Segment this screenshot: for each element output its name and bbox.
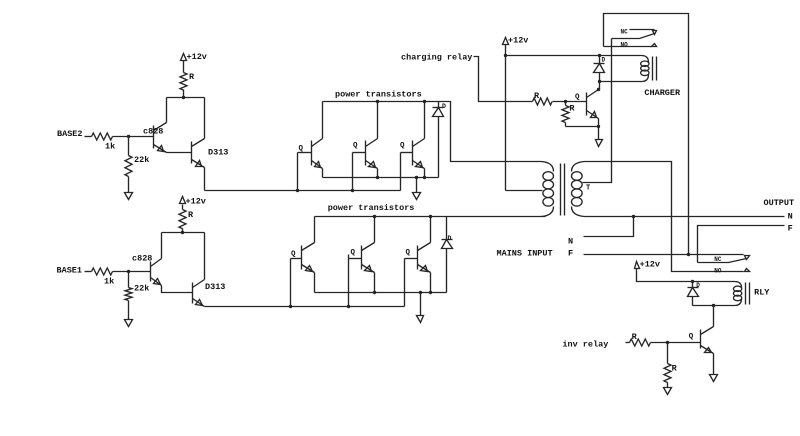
relay K1 coil (charger): [506, 56, 650, 82]
wire Q10 base drop: [404, 259, 406, 307]
wire K1 NO loop to mains F: [604, 14, 689, 255]
resistor R6 (collector supply): [179, 205, 186, 233]
junction Q9 emitter / bottom bus: [373, 291, 376, 294]
junction base bus / Q9 base: [347, 305, 350, 308]
label T (transformer): [586, 185, 590, 193]
wire charging relay lead-in: [474, 57, 533, 102]
power +12v (centre): [503, 36, 529, 46]
junction R8 / emitter line: [597, 125, 600, 128]
wire Q1 emitter to Q2 base: [167, 152, 192, 154]
wire Q3 collector up: [322, 102, 324, 139]
node F (mains): [568, 249, 573, 259]
label c828 (Q1): [143, 127, 163, 137]
wire lower emitter bus: [315, 292, 447, 294]
resistor R2 22k: [125, 156, 132, 177]
transistor Q5 (power): [413, 139, 425, 169]
transistor Q11 (charger driver): [587, 90, 599, 119]
svg-text:+12v: +12v: [187, 52, 207, 62]
svg-text:charging relay: charging relay: [401, 53, 472, 63]
label R (R10): [672, 364, 678, 374]
wire Q8 base stub: [291, 258, 302, 260]
wire upper bus to transformer primary top: [439, 102, 542, 162]
svg-text:Q: Q: [400, 142, 405, 150]
label c828 (Q6): [132, 254, 152, 264]
junction rail/R6: [181, 231, 184, 234]
label power transistors (upper): [335, 90, 422, 100]
svg-text:F: F: [788, 223, 793, 233]
relay K1 core: [653, 57, 657, 81]
label R (R6): [188, 210, 194, 220]
wire R5 top lead: [128, 272, 130, 288]
svg-text:1k: 1k: [104, 277, 114, 287]
junction D3 top / coil top: [598, 54, 601, 57]
wire Q9 base stub: [349, 258, 362, 260]
wire Q4 base stub: [353, 152, 366, 154]
node F (output): [788, 223, 793, 233]
node inv relay (label): [562, 340, 608, 350]
wire Q9 base drop: [348, 255, 350, 307]
label R (R7): [534, 91, 540, 101]
transistor Q4 (power): [366, 139, 378, 169]
svg-text:F: F: [568, 249, 573, 259]
svg-text:CHARGER: CHARGER: [644, 88, 681, 98]
svg-text:D: D: [602, 57, 606, 64]
svg-text:1k: 1k: [105, 142, 115, 152]
svg-text:Q: Q: [353, 142, 358, 150]
wire Q11 emitter to ground: [598, 119, 600, 140]
transformer T secondary winding: [572, 162, 585, 217]
junction Q10 emitter / bottom bus: [429, 291, 432, 294]
svg-text:R: R: [672, 364, 678, 374]
label Q (Q9): [351, 249, 356, 257]
junction Q9 collector / top bus: [373, 215, 376, 218]
wire Q6 collector to rail: [161, 233, 163, 259]
wire Q12 emitter to ground: [713, 354, 715, 375]
junction Q11 collector / diode leg: [597, 88, 600, 91]
wire Q5 base stub: [401, 152, 413, 154]
wire Q4 base drop: [352, 153, 354, 191]
junction Q12 base / R10: [666, 341, 669, 344]
wire K1 NO contact: [604, 46, 652, 48]
junction mains N / secondary bottom: [632, 215, 635, 218]
label MAINS INPUT: [497, 249, 553, 259]
label 1k (R1 value): [105, 142, 115, 152]
label NC (K1 contact): [621, 29, 629, 36]
node BASE2: [57, 129, 83, 139]
power +12v (upper channel): [181, 52, 207, 62]
wire lower +12v rail: [162, 232, 205, 234]
junction Q5 collector / top bus: [423, 100, 426, 103]
svg-text:NO: NO: [714, 267, 722, 274]
svg-text:NC: NC: [621, 29, 629, 36]
junction Q10 collector / top bus: [429, 215, 432, 218]
svg-text:22k: 22k: [134, 284, 149, 294]
transistor Q2 D313: [192, 139, 205, 168]
wire K1 NC contact: [630, 29, 655, 31]
resistor R5 22k: [125, 288, 132, 301]
transistor Q8 (power): [302, 243, 315, 273]
wire Q7 collector to rail: [204, 233, 206, 280]
svg-text:Q: Q: [406, 249, 411, 257]
diode D1 (upper snubber): [433, 102, 444, 178]
wire Q10 base stub: [405, 258, 418, 260]
svg-text:power transistors: power transistors: [328, 203, 415, 213]
resistor R1 1k: [92, 133, 113, 140]
contact marker (K2 NC side): [745, 256, 750, 260]
junction D3 bottom / coil bottom: [598, 80, 601, 83]
junction emitter bus / ground stub: [415, 176, 418, 179]
ground (upper block): [413, 193, 421, 200]
label NO (K1 contact): [621, 41, 629, 48]
svg-text:Q: Q: [351, 249, 356, 257]
wire R1 to Q1 base: [113, 136, 154, 138]
junction base bus / Q4 base: [351, 189, 354, 192]
relay K2 coil (RLY): [693, 282, 742, 306]
wire Q5 collector up: [424, 102, 426, 139]
label Q (Q12): [689, 333, 694, 341]
svg-text:D313: D313: [208, 148, 228, 158]
svg-text:BASE1: BASE1: [57, 266, 83, 276]
wire ground stub (upper block): [416, 178, 418, 193]
ground (lower block): [417, 316, 424, 323]
label OUTPUT: [764, 198, 795, 208]
wire primary centre tap: [506, 190, 543, 192]
wire output F: [698, 226, 785, 263]
svg-text:Q: Q: [689, 333, 694, 341]
power +12v (lower channel): [180, 197, 206, 207]
diode D2 (lower snubber): [442, 217, 453, 293]
transformer T core: [561, 164, 565, 216]
wire upper base bus: [205, 190, 401, 192]
wire Q1 collector to +12v rail: [166, 98, 168, 123]
wire Q6 emitter to Q7 base: [162, 286, 193, 293]
svg-text:Q: Q: [575, 94, 580, 102]
label R (R3): [189, 72, 195, 82]
resistor R8 (base pulldown): [562, 102, 569, 127]
wire R2 top lead: [128, 137, 130, 156]
svg-text:D: D: [442, 103, 446, 110]
wire Q8 base drop: [290, 259, 292, 307]
label power transistors (lower): [328, 203, 415, 213]
junction emitter bus / ground stub (lower): [419, 291, 422, 294]
wire Q3 base drop: [297, 153, 299, 191]
label CHARGER (K1): [644, 88, 681, 98]
label RLY (K2): [754, 288, 770, 298]
wire mains F to K2 NC: [584, 254, 744, 256]
wire R8 to emitter line: [566, 126, 599, 128]
svg-text:+12v: +12v: [508, 36, 528, 46]
wire Q8 emitter down: [314, 273, 316, 293]
resistor R10 (base pulldown): [664, 343, 671, 388]
ground (Q12 emitter): [710, 375, 718, 382]
contact marker (K1 NO side): [652, 44, 657, 47]
wire +12v down to centre tap: [505, 45, 507, 191]
ground (below R2): [125, 193, 133, 200]
junction R1/R2/Q1-base: [127, 135, 130, 138]
junction +12v / charger coil feed: [504, 54, 507, 57]
ground (below R10): [664, 388, 672, 395]
label Q (Q11): [575, 94, 580, 102]
wire ground stub (lower block): [420, 293, 422, 316]
junction Q5 emitter / bottom bus: [423, 176, 426, 179]
label Q (Q5): [400, 142, 405, 150]
wire R9 to Q12 base: [651, 342, 701, 344]
svg-text:power transistors: power transistors: [335, 90, 422, 100]
wire Q10 collector up: [430, 217, 432, 243]
transistor Q10 (power): [418, 243, 431, 273]
wire Q12 collector up: [713, 306, 715, 327]
label R (R9): [632, 332, 638, 342]
label Q (Q8): [291, 251, 296, 259]
diode D3 (charger coil flyback): [594, 56, 605, 90]
node N (output): [788, 212, 793, 222]
wire Q5 base drop: [400, 153, 402, 191]
label Q (Q4): [353, 142, 358, 150]
junction Q4 emitter / bottom bus: [376, 176, 379, 179]
wire lower bus to transformer primary bottom: [447, 216, 546, 218]
label 22k (R5 value): [134, 284, 149, 294]
label Q (Q10): [406, 249, 411, 257]
wire Q8 collector up: [314, 217, 316, 243]
wire upper +12v rail: [167, 97, 205, 99]
label D313 (Q7): [205, 282, 225, 292]
svg-text:RLY: RLY: [754, 288, 770, 298]
wire Q3 emitter down: [322, 169, 324, 178]
svg-text:D313: D313: [205, 282, 225, 292]
svg-text:D: D: [696, 282, 700, 289]
contact marker pole (K1 NC side): [653, 31, 657, 35]
label 22k (R2 value): [134, 155, 149, 165]
wire R7 to Q11 base: [553, 101, 587, 103]
wire upper emitter bus: [323, 177, 439, 179]
svg-text:N: N: [788, 212, 793, 222]
wire +12v to K2 coil: [637, 269, 693, 282]
wire BASE1 stub: [85, 271, 92, 273]
wire Q2 collector to +12v rail: [204, 98, 206, 139]
svg-text:MAINS INPUT: MAINS INPUT: [497, 249, 553, 259]
svg-text:c828: c828: [132, 254, 152, 264]
label Q (Q3): [299, 145, 304, 153]
svg-text:+12v: +12v: [640, 260, 660, 270]
wire Q9 emitter down: [374, 273, 376, 293]
wire Q3 base stub: [298, 152, 312, 154]
svg-text:R: R: [534, 91, 540, 101]
svg-text:inv relay: inv relay: [562, 340, 608, 350]
label D (D3): [602, 57, 606, 64]
wire BASE2 stub: [85, 136, 92, 138]
svg-text:OUTPUT: OUTPUT: [764, 198, 795, 208]
transistor Q12 (inverter relay driver): [701, 327, 714, 354]
junction R4/R5/Q6-base: [127, 270, 130, 273]
transistor Q3 (power): [312, 139, 323, 169]
wire R5 to ground: [128, 301, 130, 320]
node BASE1: [57, 266, 83, 276]
svg-text:+12v: +12v: [186, 197, 206, 207]
svg-text:NO: NO: [621, 41, 629, 48]
svg-text:Q: Q: [291, 251, 296, 259]
power +12v (inverter relay): [635, 260, 661, 270]
junction Q11 base / R8: [564, 100, 567, 103]
svg-text:T: T: [586, 185, 590, 193]
wire lower collector bus: [315, 216, 447, 218]
wire mains N: [584, 217, 634, 237]
relay K2 core: [746, 283, 750, 305]
junction base bus / Q3 base: [296, 189, 299, 192]
transistor Q6 c828: [151, 259, 162, 286]
label NO (K2 contact): [714, 267, 722, 274]
resistor R7 (base series): [533, 98, 553, 105]
ground (below R5): [125, 320, 133, 327]
wire Q4 collector up: [377, 102, 379, 139]
wire secondary tap riser: [583, 39, 612, 183]
resistor R3 (collector supply): [180, 61, 187, 98]
wire Q2 emitter down: [204, 168, 206, 191]
wire Q5 emitter down: [424, 169, 426, 178]
junction base bus / Q8 base: [289, 305, 292, 308]
wire K1 common arm: [612, 34, 655, 39]
junction coil bottom / Q12 collector: [712, 304, 715, 307]
svg-text:R: R: [569, 104, 575, 114]
wire inv relay stub: [626, 342, 630, 344]
wire R4 to Q6 base: [113, 271, 151, 273]
svg-text:22k: 22k: [134, 155, 149, 165]
label D (D4): [696, 282, 700, 289]
svg-text:Q: Q: [299, 145, 304, 153]
junction K1 loop / mains F line: [687, 253, 690, 256]
wire K2 common arm: [698, 259, 747, 263]
junction coil top / D4: [691, 280, 694, 283]
transformer T primary winding: [542, 162, 554, 217]
svg-text:R: R: [189, 72, 195, 82]
wire Q9 collector up: [374, 217, 376, 243]
contact marker (K2 NO side): [745, 269, 750, 272]
junction rail/R3: [182, 96, 185, 99]
label R (R8): [569, 104, 575, 114]
svg-text:D: D: [448, 235, 452, 242]
node N (mains): [568, 237, 573, 247]
ground (Q11 emitter): [596, 140, 603, 147]
transistor Q7 D313: [193, 280, 205, 307]
wire upper collector bus: [323, 101, 439, 103]
label D (D1): [442, 103, 446, 110]
svg-text:BASE2: BASE2: [57, 129, 83, 139]
label NC (K2 contact): [714, 256, 722, 263]
node charging relay (label): [401, 53, 472, 63]
resistor R4 1k: [92, 268, 113, 275]
label D313 (Q2): [208, 148, 228, 158]
label 1k (R4 value): [104, 277, 114, 287]
label D (D2): [448, 235, 452, 242]
wire R2 to ground: [128, 177, 130, 193]
resistor R9 (base series): [630, 339, 651, 346]
wire secondary bottom / output N: [585, 216, 785, 218]
svg-text:R: R: [632, 332, 638, 342]
svg-text:R: R: [188, 210, 194, 220]
transistor Q1 c828: [154, 123, 167, 153]
wire Q4 emitter down: [377, 169, 379, 178]
junction Q4 collector / top bus: [376, 100, 379, 103]
transistor Q9 (power): [362, 243, 375, 273]
svg-text:N: N: [568, 237, 573, 247]
svg-text:c828: c828: [143, 127, 163, 137]
wire secondary top to relay NO: [585, 162, 744, 272]
wire lower base bus: [205, 306, 405, 308]
wire Q10 emitter down: [430, 273, 432, 293]
diode D4 (K2 flyback): [688, 282, 699, 306]
